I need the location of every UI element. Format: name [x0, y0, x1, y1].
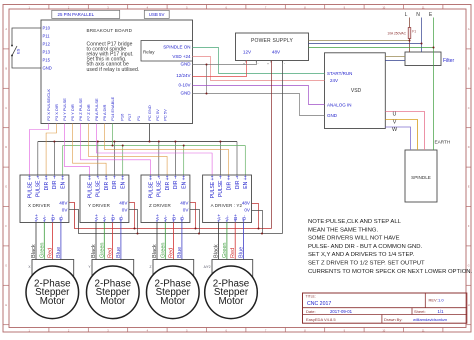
svg-text:GND: GND: [43, 66, 52, 71]
junction GND bus: [158, 141, 160, 143]
svg-text:10A 250VAC: 10A 250VAC: [387, 31, 406, 35]
svg-text:DIR +: DIR +: [44, 177, 50, 190]
junction GND lower: [206, 93, 208, 95]
frame tick right: [466, 245, 471, 247]
fuse F1 10A 250VAC: [408, 28, 411, 39]
svg-text:A+: A+: [34, 214, 40, 220]
svg-text:Black: Black: [214, 244, 220, 258]
junction 48V bus Y: [134, 228, 136, 230]
svg-text:PULSE +: PULSE +: [148, 177, 154, 198]
svg-text:P14 ENABLE: P14 ENABLE: [110, 96, 115, 120]
wire P9 A DIR to A driver: [105, 124, 229, 176]
frame tick top: [127, 5, 129, 10]
svg-text:Red: Red: [108, 248, 114, 258]
svg-text:1.0: 1.0: [438, 298, 444, 303]
svg-text:H: H: [468, 303, 470, 307]
wire 0V bus to drivers: [69, 210, 283, 234]
wire GND drop to driver PULSE-/DIR-: [113, 142, 115, 176]
wire Y driver 0V drop: [129, 210, 138, 234]
svg-text:D: D: [5, 145, 7, 149]
frame tick left: [3, 324, 9, 326]
USB 5V connector label box: [144, 10, 169, 18]
svg-text:GND: GND: [327, 113, 338, 118]
wire power supply E input: [309, 47, 434, 49]
frame tick bottom: [166, 328, 168, 333]
junction GND bus: [113, 141, 115, 143]
svg-text:A+: A+: [216, 214, 222, 220]
svg-text:VSD: VSD: [351, 88, 362, 94]
svg-text:PULSE -: PULSE -: [96, 177, 102, 197]
svg-text:williamdavidsonkzn: williamdavidsonkzn: [413, 317, 447, 322]
svg-text:48V: 48V: [119, 201, 128, 206]
svg-text:L: L: [405, 12, 408, 18]
svg-text:PULSE +: PULSE +: [27, 177, 33, 198]
2-phase stepper motor M1: [26, 266, 79, 319]
frame tick top: [166, 5, 168, 10]
frame tick left: [3, 87, 9, 89]
svg-text:P4 Y PULSE: P4 Y PULSE: [62, 98, 67, 121]
svg-text:EN +: EN +: [61, 177, 67, 188]
junction GND upper: [206, 64, 208, 66]
frame tick bottom: [403, 328, 405, 333]
svg-text:A+: A+: [155, 214, 161, 220]
svg-text:PULSE -: PULSE -: [157, 177, 163, 197]
junction N: [421, 43, 423, 45]
svg-text:B-: B-: [119, 215, 125, 220]
svg-text:-: -: [284, 62, 285, 66]
junction GND bus: [53, 141, 55, 143]
frame tick top: [284, 5, 286, 10]
svg-text:PULSE- AND DIR - BUT A COMMON: PULSE- AND DIR - BUT A COMMON GND.: [308, 244, 422, 250]
svg-text:E: E: [468, 185, 470, 189]
svg-text:Green: Green: [160, 242, 166, 258]
junction 48V bus A: [258, 228, 260, 230]
frame tick right: [466, 206, 471, 208]
2-phase stepper motor M3: [147, 266, 200, 319]
junction PC GND feed: [149, 141, 151, 143]
power supply PS1: [236, 33, 309, 61]
25 PIN PARALLEL connector label box: [52, 10, 120, 18]
wire GND drop to driver PULSE-/DIR-: [97, 142, 99, 176]
wire P7 Z DIR to Z driver: [89, 124, 168, 176]
svg-text:SET Z DRIVER TO 1/2 STEP. SET: SET Z DRIVER TO 1/2 STEP. SET OUTPUT: [308, 261, 425, 267]
svg-text:TITLE:: TITLE:: [306, 295, 316, 299]
svg-text:Relay: Relay: [143, 49, 155, 54]
svg-text:0V: 0V: [122, 208, 129, 213]
wire GND drop to driver PULSE-/DIR-: [174, 142, 176, 176]
wire U VSD to spindle: [385, 112, 424, 151]
frame tick top: [206, 5, 208, 10]
svg-text:CNC 2017: CNC 2017: [307, 301, 331, 307]
svg-text:48V: 48V: [180, 201, 189, 206]
svg-text:GND: GND: [181, 91, 192, 96]
junction GND bus: [219, 141, 221, 143]
wire P6 Z PULSE to Z driver: [81, 124, 151, 176]
svg-text:Black: Black: [31, 244, 37, 258]
svg-text:N: N: [416, 12, 420, 18]
svg-text:A-: A-: [225, 215, 231, 220]
wire E earth down to spindle: [433, 18, 435, 151]
svg-text:MEAN THE SAME THING.: MEAN THE SAME THING.: [308, 227, 379, 233]
svg-text:PC 5V: PC 5V: [155, 109, 160, 121]
wire ENABLE drop to driver EN+: [122, 146, 124, 176]
svg-text:P11: P11: [43, 34, 51, 39]
svg-text:A/Y2: A/Y2: [204, 265, 211, 269]
stepper driver Z DRIVER: [141, 175, 190, 223]
junction 0V bus Y: [137, 233, 139, 235]
junction ENABLE bus: [122, 145, 124, 147]
wire GND drop to driver PULSE-/DIR-: [236, 142, 238, 176]
svg-text:BREAKOUT BOARD: BREAKOUT BOARD: [87, 28, 133, 33]
svg-text:B: B: [468, 66, 470, 70]
svg-text:Motor: Motor: [218, 296, 244, 307]
wires driver X DRIVER to motor: [35, 223, 37, 261]
junction P14 feed: [112, 145, 114, 147]
svg-text:G: G: [468, 263, 470, 267]
svg-text:+: +: [243, 62, 245, 66]
svg-text:12/24V: 12/24V: [176, 73, 190, 78]
svg-text:SPINDLE ON: SPINDLE ON: [163, 45, 190, 50]
2-phase stepper motor M4: [205, 266, 258, 319]
svg-text:P16: P16: [120, 113, 125, 121]
junction E: [433, 47, 435, 49]
wire P14 ENABLE bus: [112, 124, 114, 146]
frame tick top: [48, 5, 50, 10]
svg-text:START/RUN: START/RUN: [327, 71, 352, 76]
svg-text:EasyEDA V4.8.5: EasyEDA V4.8.5: [306, 317, 336, 322]
svg-text:P13: P13: [43, 50, 51, 55]
svg-text:Z DRIVER: Z DRIVER: [149, 203, 171, 208]
wire VSD to filter N: [385, 60, 405, 62]
wire L to fuse: [409, 18, 411, 28]
svg-text:P15: P15: [43, 58, 51, 63]
junction GND bus: [174, 141, 176, 143]
svg-text:SPINDLE: SPINDLE: [411, 175, 431, 180]
frame tick bottom: [245, 328, 247, 333]
svg-text:SOME DRIVERS WILL NOT HAVE: SOME DRIVERS WILL NOT HAVE: [308, 236, 400, 242]
VSD spindle drive U2: [325, 53, 386, 129]
svg-text:12V: 12V: [243, 50, 252, 55]
frame tick right: [466, 87, 471, 89]
junction ENABLE bus: [183, 145, 185, 147]
svg-text:U: U: [393, 112, 397, 118]
wire 12/24V to power supply 12V+: [193, 61, 247, 77]
svg-text:P7 Z DIR: P7 Z DIR: [86, 104, 91, 121]
frame tick top: [87, 5, 89, 10]
wire VSD +24 to VSD 24V: [193, 57, 325, 81]
frame tick top: [324, 5, 326, 10]
relay K1 inside breakout board: [141, 41, 193, 62]
power supply bottom pin stubs: [245, 61, 247, 63]
mains filter FL1: [405, 52, 441, 66]
wire GND to VSD GND: [193, 94, 325, 116]
svg-text:2017-09-01: 2017-09-01: [330, 309, 353, 314]
wire GND drop to driver PULSE-/DIR-: [37, 142, 39, 176]
svg-text:Green: Green: [99, 242, 105, 258]
frame tick right: [466, 166, 471, 168]
wire power supply L input: [309, 40, 410, 42]
svg-text:VSD +24: VSD +24: [172, 54, 191, 59]
svg-text:Blue: Blue: [116, 247, 122, 258]
frame tick top: [403, 5, 405, 10]
svg-text:CURRENTS TO MOTOR SPECK OR NEX: CURRENTS TO MOTOR SPECK OR NEXT LOWER OP…: [308, 269, 473, 275]
svg-text:48V: 48V: [242, 201, 251, 206]
svg-text:X DRIVER: X DRIVER: [28, 203, 51, 208]
breakout board U1: [41, 20, 193, 124]
frame tick bottom: [363, 328, 365, 333]
emergency stop switch ES wiring from P10 to GND: [12, 28, 41, 46]
svg-text:EN +: EN +: [243, 177, 249, 188]
svg-text:EN +: EN +: [121, 177, 127, 188]
title block: [303, 293, 467, 323]
frame tick top: [363, 5, 365, 10]
wire power supply 48V- feed down: [282, 61, 284, 234]
svg-text:Red: Red: [48, 248, 54, 258]
wire W VSD to spindle: [385, 127, 410, 150]
svg-text:DIR +: DIR +: [104, 177, 110, 190]
wire VSD to filter L: [385, 56, 405, 58]
svg-text:B+: B+: [233, 214, 239, 220]
svg-text:PULSE -: PULSE -: [218, 177, 224, 197]
svg-text:Drawn By:: Drawn By:: [384, 317, 402, 322]
svg-text:A-: A-: [102, 215, 108, 220]
motor 1 connector: [32, 260, 74, 277]
wire Z driver 48V drop: [190, 203, 196, 229]
svg-text:Blue: Blue: [177, 247, 183, 258]
svg-text:P1: P1: [136, 115, 141, 121]
junction 48V bus Z: [195, 228, 197, 230]
svg-text:A+: A+: [94, 214, 100, 220]
svg-text:Motor: Motor: [40, 296, 66, 307]
frame tick right: [466, 284, 471, 286]
svg-text:DIR -: DIR -: [112, 177, 118, 189]
wires driver A DRIVER : Y2 to motor: [218, 223, 220, 261]
svg-text:EN +: EN +: [182, 177, 188, 188]
motor 2 connector: [92, 260, 134, 277]
frame tick right: [466, 48, 471, 50]
svg-text:+: +: [267, 62, 269, 66]
svg-text:Filter: Filter: [443, 58, 454, 64]
svg-text:G: G: [5, 263, 7, 267]
frame tick bottom: [442, 328, 444, 333]
junction 0V bus A: [261, 233, 263, 235]
frame tick right: [466, 127, 471, 129]
svg-text:48V: 48V: [272, 50, 281, 55]
svg-text:B+: B+: [50, 214, 56, 220]
stepper driver Y DRIVER: [80, 175, 129, 223]
wire GND vertical link: [206, 65, 208, 94]
svg-text:Motor: Motor: [160, 296, 186, 307]
wire A driver 48V drop: [252, 204, 259, 229]
frame tick bottom: [206, 328, 208, 333]
stepper driver A DRIVER : Y2: [203, 175, 252, 223]
svg-text:DIR -: DIR -: [173, 177, 179, 189]
wire P8 A PULSE to A driver: [97, 124, 213, 176]
svg-text:A-: A-: [42, 215, 48, 220]
svg-text:DIR -: DIR -: [52, 177, 58, 189]
svg-text:Green: Green: [39, 242, 45, 258]
svg-text:B: B: [5, 66, 7, 70]
wire 48V bus to drivers: [69, 203, 272, 229]
svg-text:Green: Green: [222, 242, 228, 258]
svg-text:REV:: REV:: [429, 298, 438, 303]
svg-text:DIR +: DIR +: [227, 177, 233, 190]
wire P5 Y DIR to Y driver: [73, 124, 107, 176]
motor 4 connector: [212, 260, 253, 277]
stepper driver X DRIVER: [20, 175, 69, 223]
svg-text:0V: 0V: [62, 208, 69, 213]
junction 0V bus Z: [198, 233, 200, 235]
svg-text:POWER SUPPLY: POWER SUPPLY: [251, 38, 294, 44]
svg-text:Blue: Blue: [239, 247, 245, 258]
wires driver Z DRIVER to motor: [156, 223, 158, 261]
svg-text:0V: 0V: [183, 208, 190, 213]
svg-text:0V: 0V: [244, 208, 251, 213]
svg-text:Black: Black: [91, 244, 97, 258]
svg-text:Motor: Motor: [100, 296, 126, 307]
svg-text:Date:: Date:: [306, 309, 316, 314]
frame tick left: [3, 48, 9, 50]
wire GND drop to driver PULSE-/DIR-: [219, 142, 221, 176]
svg-text:B+: B+: [110, 214, 116, 220]
svg-text:PC GND: PC GND: [147, 105, 152, 121]
wire A driver 0V drop: [252, 211, 263, 234]
wire Y driver 48V drop: [129, 203, 135, 229]
wires driver Y DRIVER to motor: [95, 223, 97, 261]
wire P2 X PULSE to X driver: [30, 124, 49, 176]
motor 3 connector: [153, 260, 194, 277]
svg-text:GND: GND: [181, 62, 192, 67]
wire power supply 48V+ feed down: [271, 61, 273, 229]
svg-text:P8 A PULSE: P8 A PULSE: [94, 98, 99, 121]
svg-text:used if relay is utilised.: used if relay is utilised.: [87, 67, 140, 73]
svg-text:Blue: Blue: [56, 247, 62, 258]
svg-text:PC 5V: PC 5V: [163, 109, 168, 121]
svg-text:PULSE -: PULSE -: [36, 177, 42, 197]
svg-text:Red: Red: [230, 248, 236, 258]
frame tick top: [442, 5, 444, 10]
svg-text:Black: Black: [152, 244, 158, 258]
svg-text:ES: ES: [16, 48, 21, 54]
svg-text:Y DRIVER: Y DRIVER: [88, 203, 111, 208]
svg-text:Red: Red: [169, 248, 175, 258]
wire PC GND common bus: [149, 124, 151, 142]
svg-text:C: C: [5, 106, 7, 110]
svg-text:0-10V: 0-10V: [178, 83, 190, 88]
svg-text:F1: F1: [412, 30, 416, 34]
wire GND drop to driver PULSE-/DIR-: [53, 142, 55, 176]
frame tick left: [3, 206, 9, 208]
svg-text:B-: B-: [241, 215, 247, 220]
svg-text:48V: 48V: [59, 201, 68, 206]
wire SPINDLE ON to VSD START/RUN: [193, 48, 325, 74]
wire P3 X DIR to X driver: [46, 124, 56, 176]
svg-text:Sheet:: Sheet:: [414, 309, 426, 314]
svg-text:P3 X DIR: P3 X DIR: [54, 104, 59, 121]
svg-text:PULSE +: PULSE +: [87, 177, 93, 198]
frame tick bottom: [324, 328, 326, 333]
junction L: [409, 40, 411, 42]
wire Z driver 0V drop: [190, 210, 200, 234]
svg-text:ANALOG IN: ANALOG IN: [327, 102, 352, 107]
wire P4 Y PULSE to Y driver: [65, 124, 90, 176]
frame tick left: [3, 245, 9, 247]
wire L fuse to filter: [409, 39, 411, 53]
frame tick bottom: [48, 328, 50, 333]
svg-text:B-: B-: [180, 215, 186, 220]
svg-text:DIR +: DIR +: [165, 177, 171, 190]
svg-text:EARTH: EARTH: [435, 140, 451, 145]
wire GND drop to driver PULSE-/DIR-: [158, 142, 160, 176]
frame tick left: [3, 127, 9, 129]
frame tick top: [245, 5, 247, 10]
wire ENABLE drop to driver EN+: [62, 146, 64, 176]
frame tick right: [466, 324, 471, 326]
svg-text:25 PIN PARALLEL: 25 PIN PARALLEL: [58, 12, 95, 17]
svg-text:V: V: [393, 120, 397, 126]
svg-text:P9 A DIR: P9 A DIR: [102, 104, 107, 120]
svg-text:24V: 24V: [330, 78, 338, 83]
svg-text:C: C: [468, 106, 470, 110]
wire V VSD to spindle: [385, 120, 417, 151]
svg-text:1/1: 1/1: [438, 309, 445, 314]
wire ENABLE drop to driver EN+: [244, 146, 246, 176]
frame tick left: [3, 166, 9, 168]
svg-text:A: A: [5, 27, 7, 31]
svg-text:D: D: [468, 145, 470, 149]
svg-text:PULSE +: PULSE +: [210, 177, 216, 198]
frame tick bottom: [87, 328, 89, 333]
svg-text:USB 5V: USB 5V: [149, 12, 165, 17]
svg-text:P6 Z PULSE: P6 Z PULSE: [78, 98, 83, 121]
frame tick left: [3, 284, 9, 286]
svg-text:B+: B+: [171, 214, 177, 220]
frame tick bottom: [284, 328, 286, 333]
wire 0-10V to VSD ANALOG IN: [193, 86, 325, 105]
svg-text:P5 Y DIR: P5 Y DIR: [70, 104, 75, 121]
svg-text:SET X,Y AND A DRIVERS TO 1/4 S: SET X,Y AND A DRIVERS TO 1/4 STEP.: [308, 252, 415, 258]
svg-text:A-: A-: [163, 215, 169, 220]
wire N to filter: [421, 18, 423, 53]
wire GND to power supply 12V-: [193, 61, 257, 65]
junction GND bus: [97, 141, 99, 143]
svg-text:A: A: [468, 27, 470, 31]
wire power supply N input: [309, 43, 422, 45]
svg-text:DIR -: DIR -: [235, 177, 241, 189]
svg-text:P17: P17: [127, 113, 132, 121]
svg-text:P2 X PULSE/CLK: P2 X PULSE/CLK: [46, 89, 51, 121]
spindle motor M5: [405, 150, 437, 202]
svg-text:-: -: [258, 62, 259, 66]
svg-text:NOTE:PULSE,CLK AND STEP ALL: NOTE:PULSE,CLK AND STEP ALL: [308, 219, 402, 225]
2-phase stepper motor M2: [87, 266, 140, 319]
svg-text:P10: P10: [43, 26, 51, 31]
svg-text:A DRIVER : Y2: A DRIVER : Y2: [211, 203, 243, 208]
switch ES contact bottom: [11, 55, 13, 57]
svg-text:B-: B-: [59, 215, 65, 220]
switch ES contact top: [11, 45, 13, 47]
frame tick bottom: [127, 328, 129, 333]
svg-text:P12: P12: [43, 42, 51, 47]
svg-text:Z: Z: [150, 265, 152, 269]
wire ENABLE drop to driver EN+: [183, 146, 185, 176]
svg-text:E: E: [5, 185, 7, 189]
switch ES blade: [12, 46, 17, 56]
svg-text:H: H: [5, 303, 7, 307]
